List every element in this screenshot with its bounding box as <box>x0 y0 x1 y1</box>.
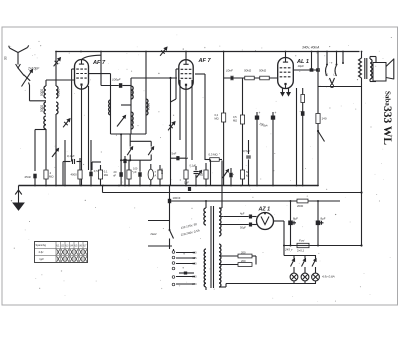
svg-text:5000: 5000 <box>40 89 44 96</box>
svg-text:50μF: 50μF <box>240 226 246 230</box>
svg-text:100pF: 100pF <box>112 78 121 82</box>
svg-text:5000: 5000 <box>57 89 61 96</box>
svg-text:2000: 2000 <box>297 204 304 208</box>
svg-text:2×10pF: 2×10pF <box>27 67 40 71</box>
svg-text:AF 7: AF 7 <box>92 60 106 66</box>
svg-text:340v, 40mA: 340v, 40mA <box>302 46 320 50</box>
svg-text:Fusi: Fusi <box>299 239 305 243</box>
svg-text:5000: 5000 <box>40 105 44 112</box>
svg-text:0,5: 0,5 <box>233 115 237 119</box>
svg-text:4,5v 0,6A: 4,5v 0,6A <box>322 275 335 279</box>
svg-text:5000: 5000 <box>160 168 164 174</box>
svg-text:150: 150 <box>192 263 197 266</box>
svg-text:MΩ: MΩ <box>49 174 53 178</box>
svg-text:Netz: Netz <box>151 232 158 236</box>
svg-text:200: 200 <box>241 251 246 255</box>
svg-text:MΩ: MΩ <box>233 118 237 122</box>
svg-text:110: 110 <box>193 252 198 255</box>
svg-text:5nF: 5nF <box>172 152 177 156</box>
svg-text:50kΩ: 50kΩ <box>259 69 267 73</box>
svg-text:MΩ: MΩ <box>104 173 108 177</box>
svg-text:5000: 5000 <box>131 117 135 124</box>
svg-text:0,3 MΩ: 0,3 MΩ <box>209 153 218 157</box>
svg-text:200: 200 <box>241 259 246 263</box>
svg-text:0,2: 0,2 <box>215 113 219 117</box>
svg-text:nF: nF <box>113 173 116 177</box>
svg-text:220: 220 <box>192 276 197 279</box>
svg-text:8μF: 8μF <box>321 217 326 221</box>
svg-text:0,1μF: 0,1μF <box>190 165 197 168</box>
svg-text:+: + <box>259 111 261 115</box>
svg-text:50kΩ: 50kΩ <box>244 69 252 73</box>
svg-text:4-6v: 4-6v <box>39 251 45 254</box>
svg-text:4μF: 4μF <box>240 212 245 216</box>
svg-text:pF: pF <box>134 170 137 174</box>
svg-text:30: 30 <box>4 56 8 60</box>
svg-text:125: 125 <box>192 257 197 260</box>
svg-text:10nF: 10nF <box>226 69 233 73</box>
svg-text:1μF: 1μF <box>184 181 189 185</box>
svg-text:0,5μF: 0,5μF <box>243 149 250 153</box>
svg-text:25nF: 25nF <box>25 175 32 179</box>
svg-text:MΩ: MΩ <box>215 116 219 120</box>
svg-text:245 v: 245 v <box>284 248 293 252</box>
svg-text:0,1: 0,1 <box>104 170 108 174</box>
svg-text:2×0,1: 2×0,1 <box>297 249 305 253</box>
svg-text:10μF: 10μF <box>298 64 305 68</box>
svg-text:240: 240 <box>192 283 197 286</box>
svg-text:0,5: 0,5 <box>94 169 98 173</box>
svg-text:AF 7: AF 7 <box>198 58 212 64</box>
svg-text:5000: 5000 <box>131 89 135 96</box>
svg-text:8μF: 8μF <box>293 217 298 221</box>
svg-text:140: 140 <box>322 117 327 121</box>
svg-text:Saba: Saba <box>384 91 392 106</box>
svg-text:tg/2: tg/2 <box>40 258 45 261</box>
svg-text:AZ 1: AZ 1 <box>258 207 271 213</box>
svg-text:Spannbg: Spannbg <box>36 243 47 247</box>
svg-text:+: + <box>275 111 277 115</box>
svg-text:5000: 5000 <box>147 103 151 110</box>
svg-text:4000: 4000 <box>71 173 78 177</box>
svg-text:A: A <box>154 173 156 177</box>
svg-text:333 WL: 333 WL <box>381 106 393 145</box>
svg-text:0,1μF: 0,1μF <box>67 154 75 158</box>
svg-text:100nF: 100nF <box>173 196 181 200</box>
